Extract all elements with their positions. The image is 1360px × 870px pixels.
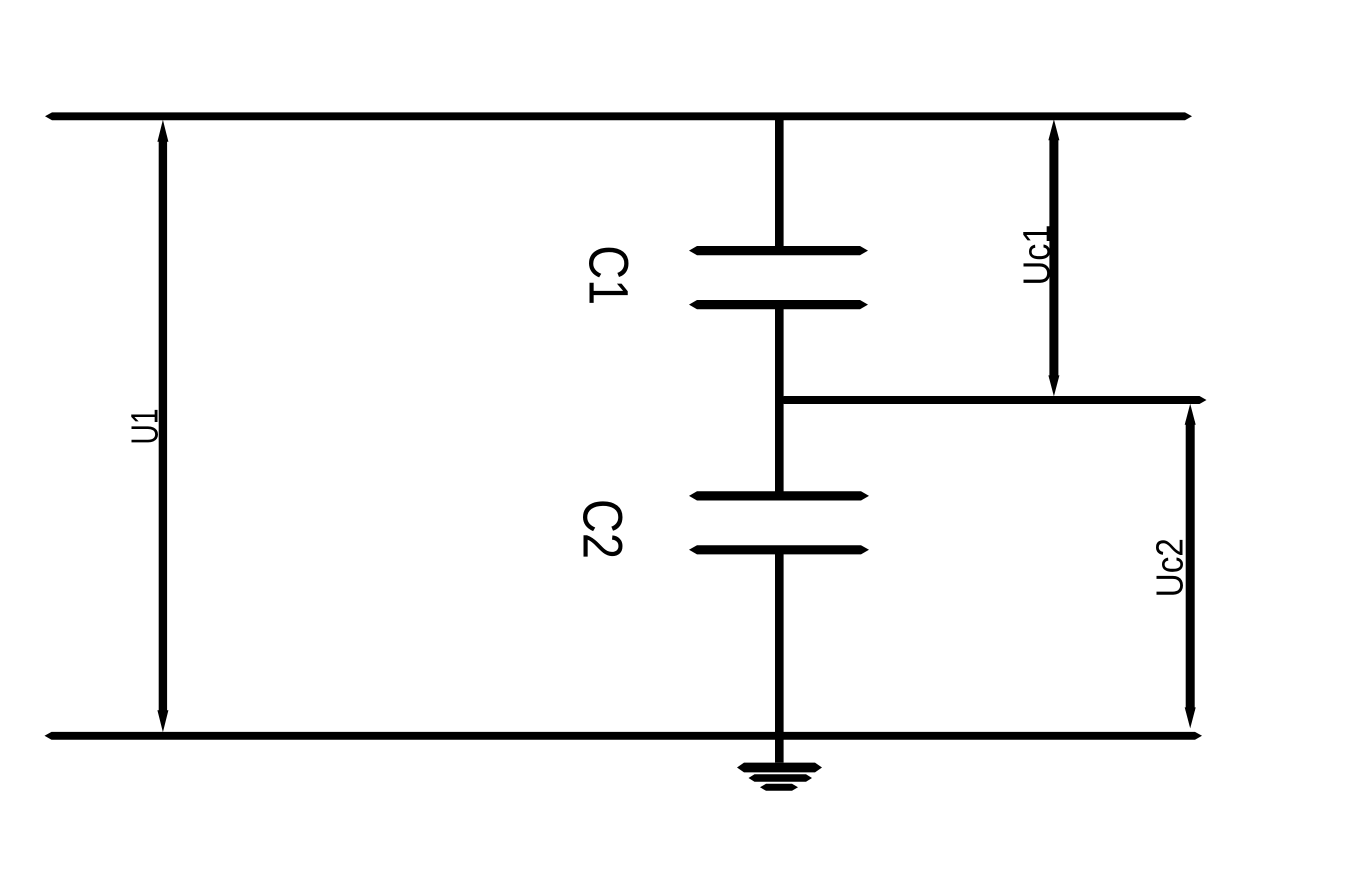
svg-text:U1: U1 — [124, 409, 166, 445]
svg-text:Uc1: Uc1 — [1017, 225, 1059, 286]
svg-text:C1: C1 — [577, 245, 640, 305]
svg-text:Uc2: Uc2 — [1150, 538, 1192, 597]
svg-text:C2: C2 — [571, 499, 634, 559]
